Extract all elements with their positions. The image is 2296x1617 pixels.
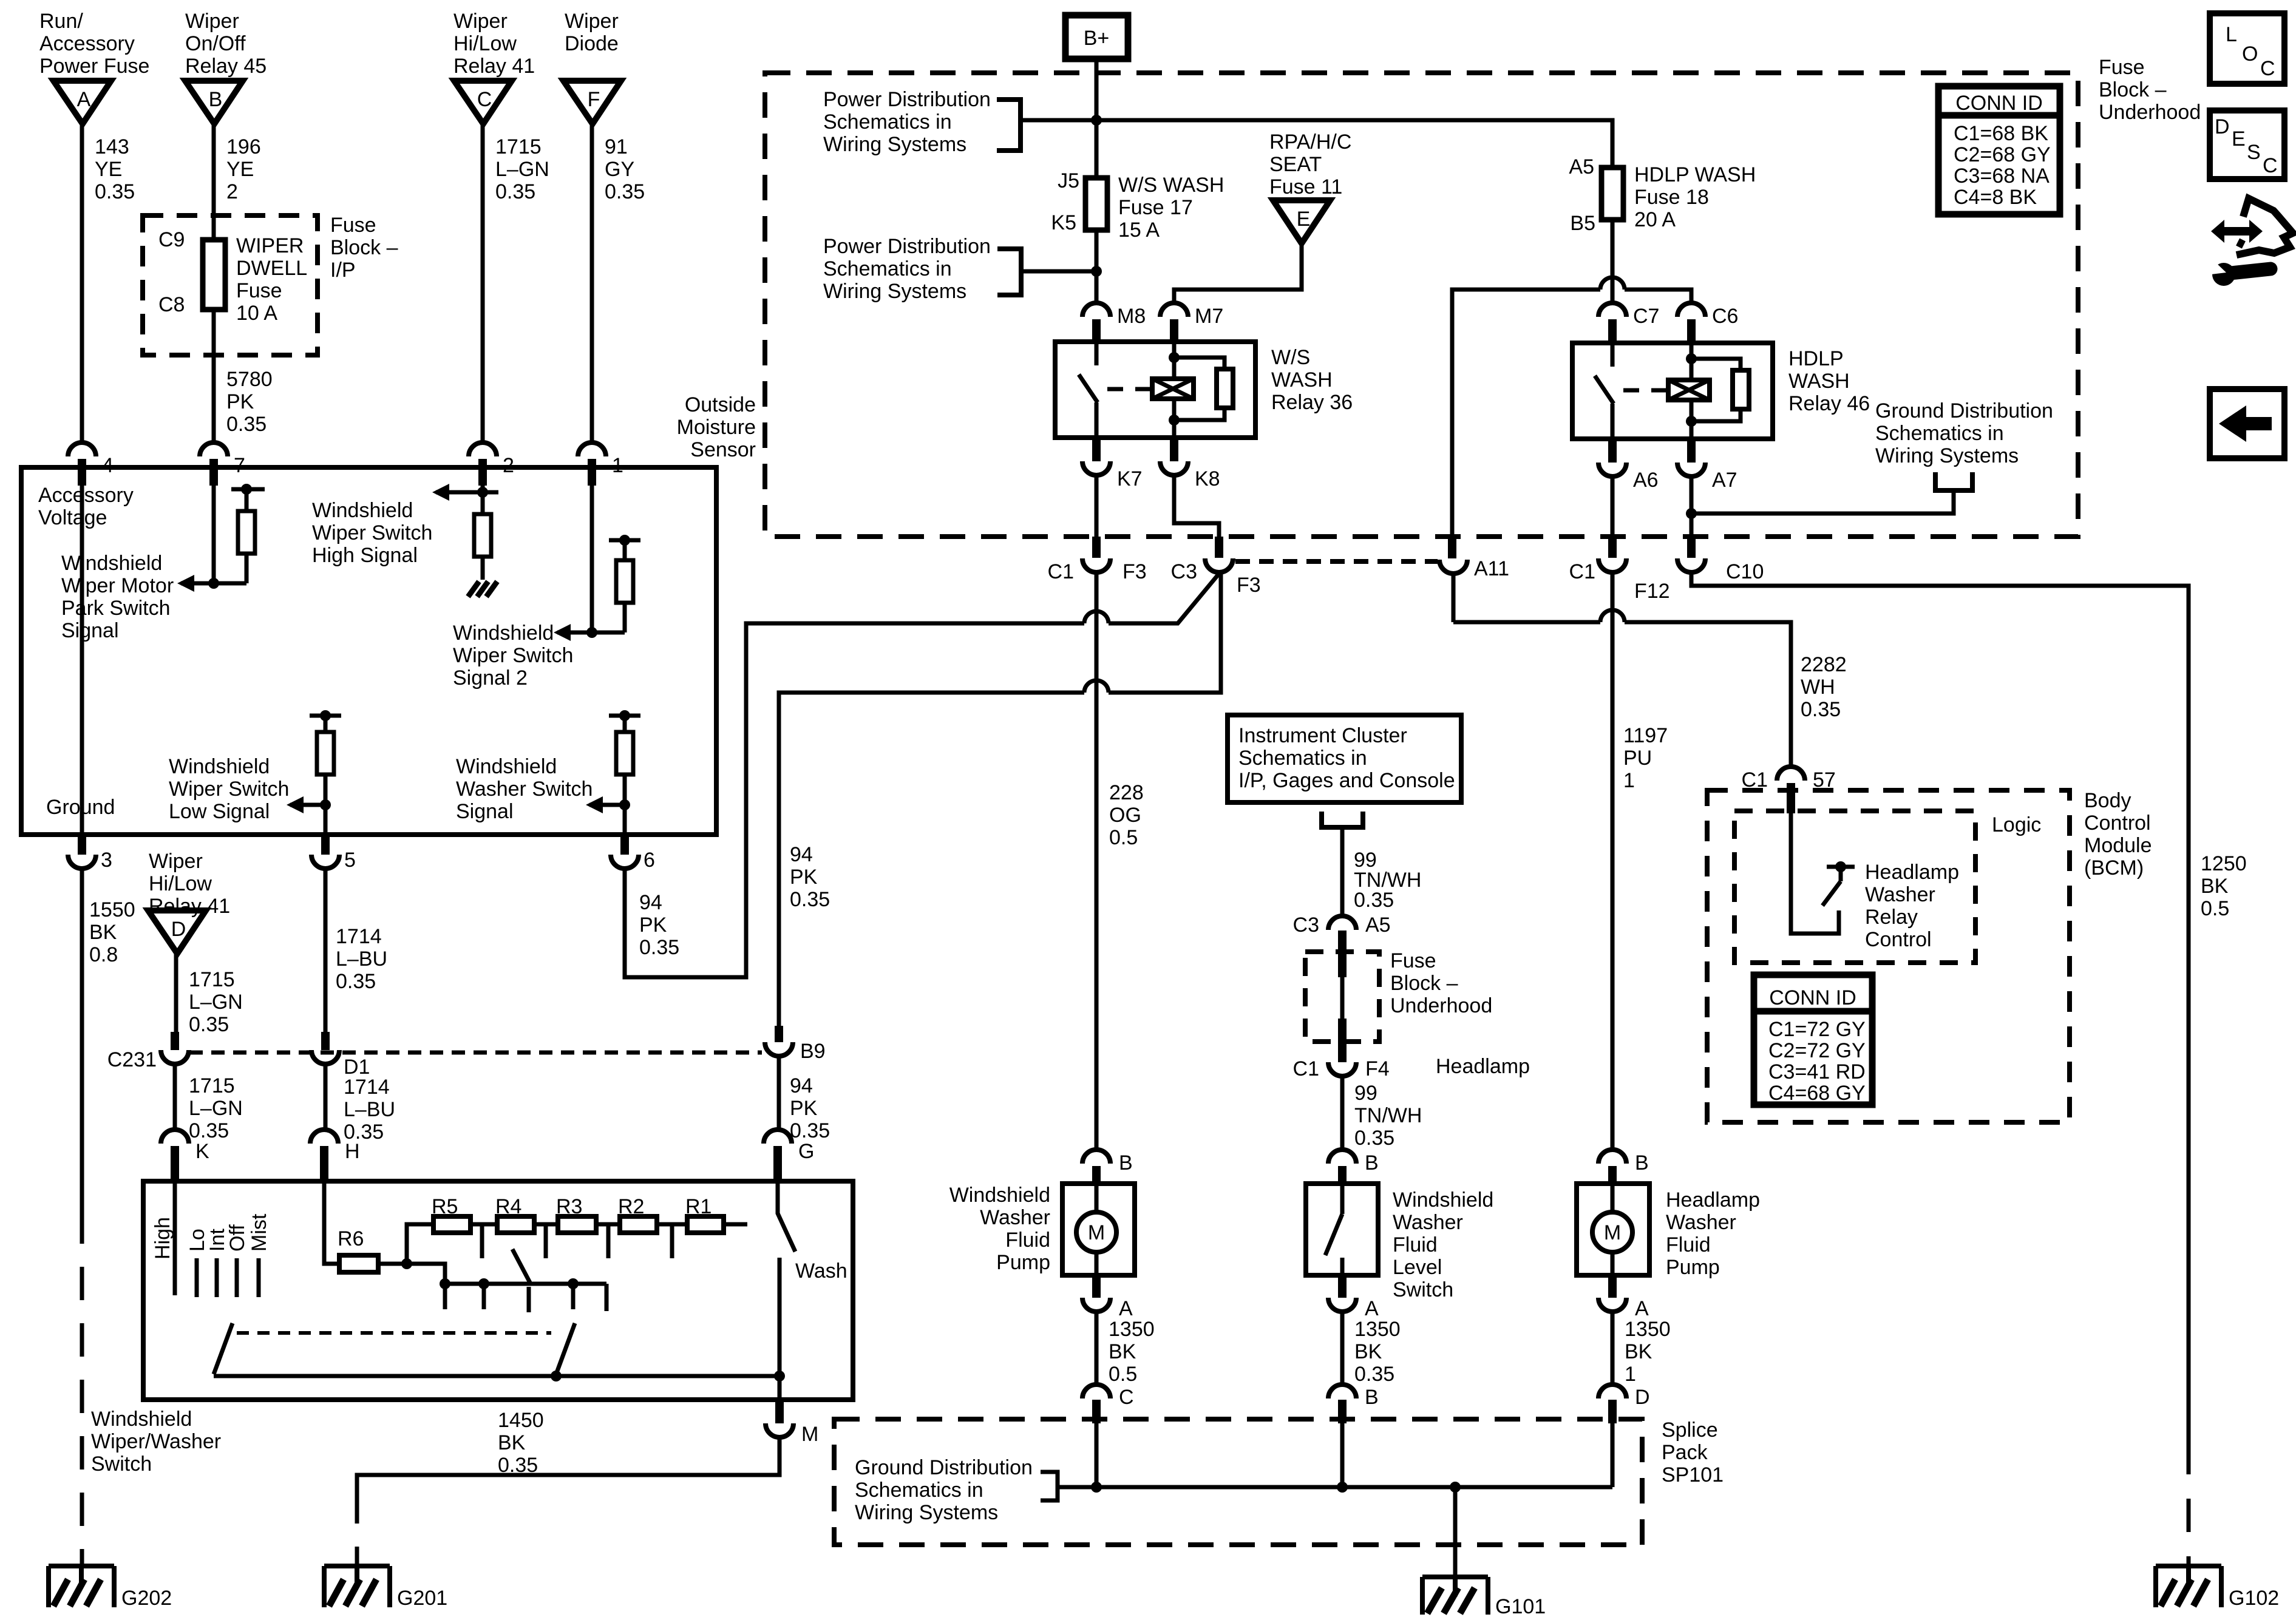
svg-text:Park Switch: Park Switch: [61, 597, 171, 620]
fuse 18 HDLP WASH (A5/B5): [1569, 155, 1623, 235]
label 91 GY 0.35: [605, 135, 645, 203]
resistor R4: [495, 1195, 534, 1233]
svg-text:HDLP: HDLP: [1788, 347, 1844, 370]
svg-text:0.35: 0.35: [226, 413, 267, 436]
label W/S WASH Fuse 17 15 A: [1118, 174, 1224, 242]
connector C3/F3: [1171, 558, 1261, 597]
label Fuse Block - Underhood (small): [1390, 949, 1492, 1017]
svg-text:1350: 1350: [1354, 1318, 1401, 1341]
svg-text:Ground Distribution: Ground Distribution: [1875, 399, 2053, 422]
svg-text:D: D: [171, 918, 186, 941]
svg-text:HDLP WASH: HDLP WASH: [1634, 163, 1756, 186]
label Splice Pack SP101: [1662, 1419, 1724, 1486]
label Wash: [795, 1259, 847, 1283]
svg-text:Schematics in: Schematics in: [823, 257, 952, 280]
ground G202: [49, 1566, 172, 1610]
connector 1 at sensor box top: [578, 442, 623, 486]
wire A below box (to G202, dashed lower part): [80, 869, 84, 1565]
svg-text:BK: BK: [2201, 875, 2229, 898]
park switch pull-up T-bar: [231, 484, 265, 495]
ground bus line: [1058, 1482, 1612, 1493]
label Windshield Washer Fluid Level Switch: [1393, 1188, 1493, 1301]
label Outside Moisture Sensor: [677, 393, 756, 461]
label 1350 BK 0.35: [1354, 1318, 1401, 1386]
B+ supply box: [1065, 15, 1128, 59]
svg-text:Logic: Logic: [1992, 813, 2041, 836]
svg-text:F3: F3: [1123, 560, 1147, 583]
label Ground Distribution Schematics in Wiring Systems (bottom): [855, 1456, 1033, 1524]
right ground wire dashed tail: [2187, 1441, 2191, 1566]
label Body Control Module (BCM): [2084, 789, 2152, 880]
label 5780 PK 0.35: [226, 368, 273, 436]
connector C7: [1598, 303, 1659, 343]
svg-text:B5: B5: [1570, 212, 1595, 235]
svg-text:BK: BK: [1354, 1340, 1382, 1363]
connector M: [766, 1423, 818, 1446]
wire washer pump feed (C1/F3 down to pump B): [1095, 572, 1099, 1150]
svg-text:M8: M8: [1117, 305, 1146, 328]
svg-text:On/Off: On/Off: [185, 32, 246, 55]
svg-text:Fuse 18: Fuse 18: [1634, 186, 1709, 209]
resistor R5: [432, 1195, 470, 1233]
svg-text:A5: A5: [1569, 155, 1594, 178]
svg-text:C1: C1: [1742, 768, 1768, 792]
svg-text:A11: A11: [1474, 557, 1509, 580]
svg-text:C7: C7: [1633, 305, 1659, 328]
windshield washer fluid level switch box: [1306, 1184, 1378, 1275]
svg-text:1715: 1715: [495, 135, 542, 158]
svg-text:3: 3: [101, 849, 112, 872]
connector 7 at sensor box top: [200, 442, 245, 486]
svg-text:20 A: 20 A: [1634, 208, 1676, 231]
svg-text:Windshield: Windshield: [312, 499, 413, 522]
fuse 17 W/S WASH (J5/K5): [1051, 169, 1107, 234]
svg-text:Windshield: Windshield: [61, 552, 162, 575]
svg-text:Washer: Washer: [1865, 883, 1935, 906]
svg-text:1715: 1715: [189, 1074, 235, 1097]
connector K7: [1082, 438, 1143, 490]
wire K inside switch (High contact): [173, 1181, 177, 1295]
selector contact Lo: [186, 1229, 209, 1297]
svg-text:C4=68 GY: C4=68 GY: [1768, 1082, 1866, 1105]
connector B9: [765, 1026, 826, 1063]
svg-text:1: 1: [1623, 769, 1635, 792]
wire 6 lower segment routing up to C3/F3 (line 1): [625, 574, 1219, 977]
label Fuse Block - I/P: [330, 214, 398, 282]
svg-text:High: High: [151, 1217, 174, 1259]
label Headlamp Washer Fluid Pump: [1666, 1188, 1760, 1279]
svg-text:Windshield: Windshield: [456, 755, 557, 778]
svg-text:C6: C6: [1712, 305, 1738, 328]
label 94 PK 0.35 (wire 6): [639, 891, 679, 959]
svg-text:K: K: [195, 1140, 209, 1163]
svg-text:L: L: [2226, 23, 2237, 46]
svg-text:Wiper/Washer: Wiper/Washer: [91, 1430, 221, 1453]
svg-text:Wiper Switch: Wiper Switch: [312, 521, 432, 544]
wire E to relay 36 coil (M7): [1174, 243, 1302, 303]
connector M7: [1160, 303, 1223, 342]
wire from R6 to junction: [378, 1258, 412, 1269]
label Wiper On/Off Relay 45: [185, 10, 267, 78]
svg-text:Pack: Pack: [1662, 1441, 1708, 1464]
svg-text:0.35: 0.35: [336, 970, 376, 993]
svg-text:OG: OG: [1109, 804, 1141, 827]
svg-text:Pump: Pump: [996, 1251, 1050, 1274]
relay 46 actuation dashes: [1623, 388, 1666, 393]
label Accessory Voltage: [38, 484, 134, 529]
power distribution line 1 to fuse 18: [1021, 115, 1612, 168]
connector E triangle (RPA/H/C SEAT Fuse 11): [1273, 200, 1330, 243]
dashed harness line C231: [189, 1051, 762, 1055]
connector B (level switch to splice): [1328, 1312, 1379, 1423]
svg-text:B: B: [209, 88, 223, 111]
svg-text:K8: K8: [1195, 467, 1220, 490]
svg-text:Schematics in: Schematics in: [855, 1479, 983, 1502]
svg-text:C1=72 GY: C1=72 GY: [1768, 1018, 1866, 1041]
svg-text:F12: F12: [1634, 580, 1670, 603]
instrument cluster reference box: [1228, 715, 1461, 802]
high signal T-bar and arrow: [432, 484, 498, 501]
label 1197 PU 1: [1623, 724, 1668, 792]
label Ground Distribution Schematics in Wiring Systems (top right): [1875, 399, 2053, 467]
wire through small fuse box: [1340, 977, 1345, 1062]
wire K8 jog to C3/F3: [1174, 475, 1219, 558]
svg-text:Mist: Mist: [248, 1213, 271, 1252]
wire B inside box down to park-switch node: [212, 467, 216, 583]
svg-text:91: 91: [605, 135, 628, 158]
connector 2 at sensor box top: [469, 442, 514, 486]
wire A11 stub below: [1452, 574, 1456, 622]
label 1714 L-BU 0.35 (above D1): [336, 925, 387, 993]
svg-text:0.35: 0.35: [1354, 889, 1394, 912]
svg-text:Fluid: Fluid: [1393, 1233, 1438, 1256]
bracket power distribution 2: [997, 249, 1021, 295]
svg-text:DWELL: DWELL: [236, 257, 307, 280]
svg-text:PK: PK: [790, 1097, 818, 1120]
label Windshield Wiper Switch Signal 2: [453, 622, 573, 690]
svg-text:Wiring Systems: Wiring Systems: [855, 1501, 998, 1524]
svg-text:Switch: Switch: [91, 1453, 152, 1476]
svg-text:Relay 41: Relay 41: [149, 895, 230, 918]
svg-text:0.35: 0.35: [95, 180, 135, 203]
svg-text:Control: Control: [2084, 812, 2151, 835]
svg-text:Diode: Diode: [565, 32, 619, 55]
wire 5 lower segment (to D1): [324, 869, 328, 1032]
svg-text:Off: Off: [226, 1224, 249, 1252]
svg-text:Wiring Systems: Wiring Systems: [823, 133, 966, 156]
connector A (washer pump): [1082, 1275, 1133, 1320]
selector contact Mist: [248, 1213, 271, 1297]
svg-text:E: E: [1297, 208, 1311, 231]
relay 46 coil: [1668, 380, 1710, 400]
label W/S WASH Relay 36: [1271, 346, 1353, 414]
DESC icon box: [2210, 110, 2284, 179]
connector 6 below sensor box: [611, 835, 655, 872]
svg-text:Wiper: Wiper: [565, 10, 619, 33]
svg-text:L–BU: L–BU: [344, 1098, 395, 1121]
ground G101: [1422, 1577, 1546, 1617]
connector C1/57: [1742, 767, 1836, 813]
svg-text:G: G: [798, 1140, 814, 1163]
wire 6 from washer-signal node to box bottom: [623, 805, 627, 835]
svg-text:99: 99: [1354, 1082, 1377, 1105]
svg-text:5780: 5780: [226, 368, 273, 391]
svg-text:G101: G101: [1495, 1595, 1546, 1617]
svg-text:L–GN: L–GN: [189, 1097, 243, 1120]
svg-text:C1: C1: [1048, 560, 1074, 583]
svg-text:TN/WH: TN/WH: [1354, 1104, 1422, 1127]
power distribution line 2: [1021, 266, 1102, 277]
dotted line C3 to A11: [1235, 559, 1438, 564]
svg-text:Low Signal: Low Signal: [169, 800, 270, 823]
connector B triangle (Wiper On/Off Relay 45): [185, 81, 243, 124]
svg-text:57: 57: [1813, 768, 1836, 792]
label Logic: [1992, 813, 2041, 836]
connector 3 below sensor box: [68, 835, 112, 872]
resistor R2: [618, 1195, 657, 1233]
wire R5-R4 with tap: [470, 1224, 497, 1258]
svg-text:Power Fuse: Power Fuse: [39, 55, 149, 78]
svg-text:Pump: Pump: [1666, 1256, 1720, 1279]
svg-text:R3: R3: [556, 1195, 582, 1218]
relay 36 switch: [1079, 342, 1098, 438]
wire R2-R1 with tap: [657, 1224, 687, 1258]
wire from M to G201 (dashed tail): [357, 1437, 779, 1565]
svg-text:1550: 1550: [89, 898, 135, 921]
svg-text:Relay 36: Relay 36: [1271, 391, 1353, 414]
svg-text:YE: YE: [226, 158, 254, 181]
svg-text:PU: PU: [1623, 747, 1652, 770]
outside moisture sensor box: [21, 467, 716, 835]
wire after R1: [724, 1222, 747, 1227]
svg-text:O: O: [2242, 42, 2258, 66]
svg-text:196: 196: [226, 135, 261, 158]
svg-text:0.35: 0.35: [1354, 1363, 1394, 1386]
label Power Distribution Schematics in Wiring Systems (2): [823, 235, 991, 303]
label 228 OG 0.5: [1109, 781, 1144, 849]
label 1350 BK 0.5: [1109, 1318, 1155, 1386]
connector B (level switch top): [1328, 1150, 1379, 1184]
svg-text:1450: 1450: [498, 1409, 544, 1432]
resistor on wire C (internal): [474, 514, 491, 580]
svg-text:PK: PK: [790, 866, 818, 889]
selector blade: [512, 1249, 531, 1284]
wire C inside box with resistor to internal ground: [481, 467, 485, 514]
svg-text:F4: F4: [1365, 1057, 1390, 1080]
svg-text:Wiper: Wiper: [149, 850, 203, 873]
svg-text:Block –: Block –: [1390, 972, 1458, 995]
svg-text:D: D: [2215, 115, 2230, 138]
svg-text:Windshield: Windshield: [169, 755, 270, 778]
svg-text:Moisture: Moisture: [677, 416, 756, 439]
label C8: [158, 293, 185, 316]
svg-text:G202: G202: [121, 1587, 172, 1610]
hop of line 1 over washer pump wire: [1084, 611, 1109, 623]
bracket power distribution 1: [997, 100, 1021, 151]
connector B (washer pump): [1082, 1150, 1133, 1184]
svg-text:WIPER: WIPER: [236, 234, 304, 257]
svg-text:I/P, Gages and Console: I/P, Gages and Console: [1238, 769, 1455, 792]
svg-text:0.35: 0.35: [1801, 698, 1841, 721]
bracket under instrument cluster box: [1322, 812, 1363, 845]
signal-2 resistor (internal): [616, 540, 633, 632]
svg-text:0.5: 0.5: [1109, 1363, 1137, 1386]
svg-text:Fuse: Fuse: [1390, 949, 1436, 972]
svg-text:Relay: Relay: [1865, 906, 1918, 929]
svg-text:W/S WASH: W/S WASH: [1118, 174, 1224, 197]
svg-text:143: 143: [95, 135, 129, 158]
wire bus to G101: [1453, 1487, 1458, 1577]
connector C3/A5: [1293, 914, 1391, 977]
connector B (headlamp washer pump): [1598, 1150, 1649, 1184]
connector A11: [1439, 557, 1509, 580]
svg-text:R6: R6: [338, 1227, 364, 1250]
svg-text:Washer: Washer: [1393, 1211, 1463, 1234]
low signal node and arrow: [287, 796, 331, 813]
connector C231: [107, 1032, 189, 1071]
svg-text:Relay 41: Relay 41: [453, 55, 535, 78]
svg-text:Windshield: Windshield: [949, 1184, 1050, 1207]
svg-text:SEAT: SEAT: [1269, 153, 1322, 176]
wire A7 junction to ground distribution bracket: [1686, 476, 1954, 558]
svg-text:C4=8 BK: C4=8 BK: [1954, 186, 2037, 209]
CONN ID table (BCM): [1754, 975, 1872, 1105]
wiper speed selector bank: [407, 1264, 606, 1312]
svg-text:BK: BK: [89, 921, 117, 944]
wire M from switch bottom to connector M: [778, 1376, 782, 1423]
svg-text:Accessory: Accessory: [38, 484, 134, 507]
svg-text:B+: B+: [1084, 27, 1110, 50]
svg-text:Fuse 11: Fuse 11: [1269, 175, 1342, 198]
svg-text:E: E: [2232, 127, 2246, 151]
svg-text:GY: GY: [605, 158, 634, 181]
svg-text:F: F: [588, 88, 600, 111]
svg-text:Level: Level: [1393, 1256, 1442, 1279]
svg-text:Fluid: Fluid: [1666, 1233, 1711, 1256]
svg-text:Fuse: Fuse: [330, 214, 376, 237]
svg-text:M: M: [1088, 1221, 1105, 1244]
relay 46 internal resistor: [1691, 359, 1749, 421]
connector H at switch box: [310, 1130, 360, 1181]
svg-text:G201: G201: [397, 1587, 447, 1610]
svg-text:C9: C9: [158, 228, 185, 251]
svg-text:Wiring Systems: Wiring Systems: [823, 280, 966, 303]
label 1450 BK 0.35: [498, 1409, 544, 1477]
svg-text:F3: F3: [1237, 574, 1261, 597]
wire K from C231 to connector K: [173, 1064, 177, 1129]
wire K7 to C1/F3: [1095, 475, 1099, 558]
svg-text:Voltage: Voltage: [38, 506, 107, 529]
label 94 PK 0.35 (below B9): [790, 1074, 830, 1142]
connector A triangle (Run/Accessory Power Fuse): [53, 81, 111, 124]
svg-text:B: B: [1635, 1151, 1649, 1175]
svg-text:C3: C3: [1171, 560, 1197, 583]
svg-text:2282: 2282: [1801, 653, 1847, 676]
headlamp washer relay control driver: [1791, 813, 1855, 934]
svg-text:1715: 1715: [189, 968, 235, 991]
svg-text:0.35: 0.35: [1354, 1127, 1394, 1150]
label C9: [158, 228, 185, 251]
hop of line 2 over washer pump wire: [1084, 680, 1109, 693]
wire F vertical from triangle to connector 1: [590, 124, 594, 442]
park switch resistor R (internal): [238, 489, 255, 583]
svg-text:BK: BK: [1625, 1340, 1652, 1363]
svg-text:R4: R4: [495, 1195, 521, 1218]
svg-text:Wiper Switch: Wiper Switch: [169, 778, 289, 801]
label 1350 BK 1: [1625, 1318, 1671, 1386]
svg-text:B: B: [1365, 1151, 1379, 1175]
connector A (level switch): [1328, 1275, 1379, 1320]
svg-text:A: A: [1365, 1297, 1379, 1320]
connector C10: [1677, 558, 1764, 583]
ground distribution dashed box (bottom): [834, 1419, 1642, 1545]
relay 36 coil: [1152, 379, 1194, 399]
connector A7: [1677, 439, 1737, 492]
svg-text:C1=68 BK: C1=68 BK: [1954, 122, 2048, 145]
svg-text:Wiring Systems: Wiring Systems: [1875, 444, 2019, 467]
svg-text:0.35: 0.35: [605, 180, 645, 203]
svg-text:S: S: [2247, 141, 2261, 164]
wire pump C to ground bus: [1095, 1423, 1099, 1487]
svg-text:Washer: Washer: [980, 1206, 1050, 1229]
svg-text:D: D: [1635, 1386, 1650, 1409]
wire C10 across to right side ground wire: [1691, 572, 2189, 1441]
resistor R6: [338, 1227, 378, 1272]
wire fuse 18 down to C7: [1611, 220, 1615, 303]
wire headlamp pump feed (C1/F12 down, with hop label 1197 PU 1): [1611, 572, 1615, 1150]
relay 46 box: [1572, 343, 1773, 439]
svg-text:L–BU: L–BU: [336, 947, 387, 971]
wire R3-R2 with tap: [596, 1224, 620, 1258]
service icon (hand with arrow and wrench): [2206, 198, 2293, 286]
washer signal pull-up T-bar: [609, 710, 640, 721]
BCM outer dashed box: [1707, 790, 2070, 1122]
connector A (headlamp pump): [1598, 1275, 1649, 1320]
label 1250 BK 0.5: [2201, 852, 2247, 920]
svg-text:Ground Distribution: Ground Distribution: [855, 1456, 1033, 1479]
svg-text:Windshield: Windshield: [91, 1408, 192, 1431]
svg-text:228: 228: [1109, 781, 1144, 804]
svg-text:C2=68 GY: C2=68 GY: [1954, 143, 2051, 166]
resistor R1: [685, 1195, 724, 1233]
wire B vertical from triangle through fuse to connector 7: [212, 124, 216, 442]
label Run/Accessory Power Fuse: [39, 10, 149, 78]
svg-text:0.35: 0.35: [189, 1119, 229, 1142]
svg-text:SP101: SP101: [1662, 1463, 1724, 1486]
svg-text:Hi/Low: Hi/Low: [149, 872, 212, 895]
resistor R3: [556, 1195, 596, 1233]
label 1715 L-GN 0.35 (below C231): [189, 1074, 243, 1142]
svg-text:Signal: Signal: [456, 800, 514, 823]
svg-text:Headlamp: Headlamp: [1436, 1055, 1530, 1078]
svg-text:C3: C3: [1293, 914, 1319, 937]
svg-text:BK: BK: [1109, 1340, 1136, 1363]
svg-text:Control: Control: [1865, 928, 1932, 951]
switch common bottom line: [214, 1371, 785, 1381]
svg-text:Relay 45: Relay 45: [185, 55, 267, 78]
back arrow icon box: [2210, 389, 2284, 458]
svg-text:Sensor: Sensor: [690, 438, 756, 461]
svg-text:CONN ID: CONN ID: [1955, 92, 2043, 115]
svg-text:Washer Switch: Washer Switch: [456, 778, 593, 801]
label 1715 L-GN 0.35 (wire C): [495, 135, 549, 203]
fuse block underhood dashed box: [765, 73, 2078, 537]
bracket ground distribution (bottom): [1041, 1472, 1058, 1500]
svg-text:Headlamp: Headlamp: [1865, 861, 1959, 884]
svg-text:1250: 1250: [2201, 852, 2247, 875]
svg-text:C8: C8: [158, 293, 185, 316]
signal-2 pull-up T-bar: [609, 535, 640, 546]
